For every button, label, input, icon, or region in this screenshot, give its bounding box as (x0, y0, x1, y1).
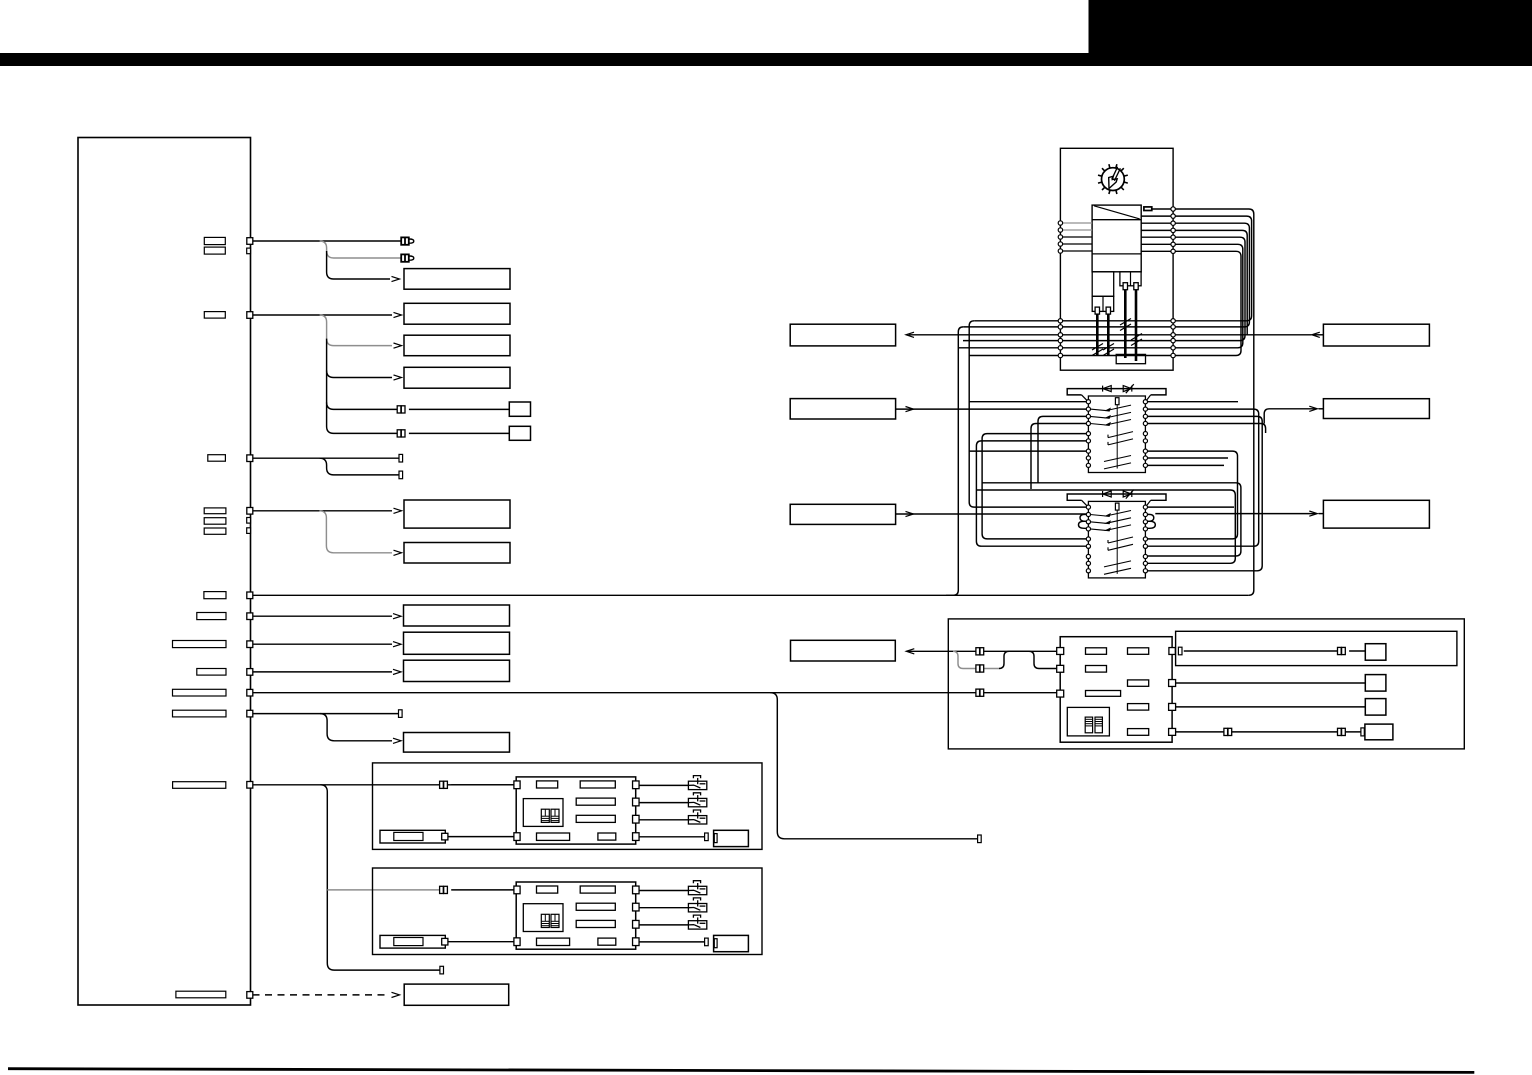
relay2 terminal L3 (1086, 520, 1090, 524)
assy1 PCB left connector bottom (514, 833, 520, 841)
relay2 bar left leg (1082, 500, 1088, 506)
arrowhead into box6 (394, 550, 402, 555)
wire row2 to box2 (253, 314, 393, 316)
assy2 right plug box (714, 935, 749, 951)
heavy lead junction box (1116, 354, 1145, 363)
assy2 wire to lamp 3 (639, 924, 688, 926)
assy1 bottom wire to connector (639, 836, 706, 838)
assy1 lamp/thermal switch 3 (688, 810, 706, 824)
terminal right tap 2 (1171, 214, 1175, 218)
assy1 left module connector (442, 833, 448, 840)
relay1 terminal R1 (1143, 400, 1147, 404)
crossover jog up to PCB connector 1 (999, 651, 1057, 668)
target box 1 (404, 269, 510, 290)
assy1 component r2 (580, 781, 615, 788)
relay2 row1 right stub (1148, 506, 1235, 508)
arrowhead into box E (1309, 406, 1317, 411)
terminal right tap 1 (1171, 207, 1175, 211)
relay block 1 body (1088, 396, 1145, 473)
label box A (left) (790, 324, 895, 346)
page header black bar (0, 53, 1532, 66)
RCA jack 2 (401, 254, 414, 261)
terminal bus row 5 left (1058, 346, 1062, 350)
wire relay1 row4 right stub (1148, 424, 1266, 434)
connector pair row2c (397, 406, 405, 413)
wire branch into display assy 2 (327, 889, 444, 891)
relay1 bar left leg (1082, 395, 1088, 401)
terminal left tap 2 (1058, 228, 1062, 232)
thermal fuse (1144, 207, 1152, 211)
right pedestal divider (1130, 272, 1132, 286)
wire row11 to display assy 1 (253, 784, 515, 786)
relay1 terminal L7 (1086, 449, 1090, 453)
connector label row4a (204, 508, 226, 514)
arrowhead from box B (906, 407, 914, 412)
box G4 tab (1361, 728, 1364, 736)
relay2 rows3-4 left jumper (1079, 521, 1087, 528)
crossover branch from D4 row (953, 651, 999, 668)
assy1 plug tab (714, 834, 717, 843)
relay block 1 diode 1 (1103, 386, 1112, 392)
inline connector pair f1 (1338, 647, 1346, 654)
relay1 terminal L8 (1086, 456, 1090, 460)
arrowhead into box2 (394, 312, 402, 317)
right tap bus: tap2 down to row r1 (974, 216, 1251, 321)
assy2 inline connector pair (440, 886, 448, 893)
assy2 digit block 1 (541, 914, 549, 927)
assy1 component r1 (537, 781, 558, 788)
wire branch row4 to box6 (319, 511, 392, 553)
small box G1 (1365, 644, 1386, 661)
relay2 terminal R1 (1143, 505, 1147, 509)
small box G2 (1365, 675, 1386, 692)
terminal right tap 4 (1171, 228, 1175, 232)
display assembly 2 : outer enclosure (373, 868, 763, 955)
stub connector right of assy1 (978, 835, 982, 843)
assy2 PCB right connector 2 (633, 903, 640, 911)
connector CN row1 (247, 238, 253, 245)
wire branch row2 to box4 (327, 339, 392, 378)
assy1 digit block 1 (541, 809, 549, 822)
relay2 terminal R8 (1143, 561, 1147, 565)
wire relay1 row1 right stub (1148, 401, 1239, 403)
assy2 PCB right connector 3 (633, 920, 640, 928)
bus row to relay2 row7 right (982, 483, 1241, 556)
right tap bus: tap1 down to AC row (1152, 209, 1254, 595)
wire feed to box E (1264, 409, 1316, 424)
terminal left tap 3 (1058, 235, 1062, 239)
transformer diagonal (1094, 206, 1140, 219)
assy1 component r4 (576, 815, 615, 822)
power PCB component r1 (1086, 648, 1107, 655)
wire relay1 row7 right to relay2 row5 right (1148, 451, 1238, 539)
assy2 left module connector (442, 938, 448, 945)
wire branch row3 to stub 2 (320, 458, 401, 475)
bottom page rule (8, 1069, 1474, 1073)
assy1 left module inner (394, 832, 423, 840)
connector CN row2 (247, 312, 253, 319)
relay1 row3 left wire down to loop A (1038, 416, 1086, 482)
assy2 end connector (705, 938, 709, 946)
power PCB right connector 4 (1169, 728, 1176, 735)
relay1 rows8-9 right stubs (1148, 457, 1229, 459)
inline connector pair p1 (976, 648, 984, 655)
header title block (solid black) (1089, 0, 1532, 55)
terminal bus row 1 left (1058, 319, 1062, 323)
relay block 1 switch blades (1090, 405, 1133, 469)
small box G4 (1365, 724, 1393, 740)
wire row1 to RCA jack 1 (253, 240, 402, 242)
connector label row6 (197, 613, 226, 620)
fan motor symbol (1098, 164, 1128, 194)
arrowhead into box F (1309, 511, 1317, 516)
assy1 PCB right connector 4 (633, 833, 640, 841)
relay2 terminal L7 (1086, 554, 1090, 558)
relay1 terminal L9 (1086, 463, 1090, 467)
assy1 inline connector pair (440, 781, 448, 788)
target box 11 (option) (404, 984, 509, 1005)
wire to small box A (409, 408, 509, 410)
assy1 PCB right connector 2 (633, 798, 640, 806)
connector label row11 (173, 782, 226, 789)
assy1 wire to lamp 2 (639, 802, 688, 804)
wire row4 to box5 (253, 510, 393, 512)
relay1 terminal R3 (1143, 414, 1147, 418)
power PCB digit block 2 (1095, 717, 1102, 733)
wire relay1 row6 left down to relay2 row6 left (976, 441, 1086, 546)
wire branch row1 to RCA jack 2 (320, 241, 402, 258)
relay2 common bar (1116, 510, 1118, 574)
connector label row2 (204, 312, 225, 319)
assy2 component r6 (598, 938, 616, 945)
label box E (right) (1323, 399, 1429, 419)
connector label row1a (204, 237, 225, 244)
assy1 left module (380, 830, 445, 843)
connector CN row10 (247, 710, 253, 717)
connector CN row5 (247, 592, 253, 599)
main PCB block (78, 138, 251, 1006)
heavy lead L2 (1107, 314, 1110, 355)
left pedestal plug 2 (1106, 307, 1110, 314)
connector label row12 (176, 991, 226, 998)
assy1 digit block 2 (551, 809, 559, 822)
relay2 terminal R7 (1143, 554, 1147, 558)
relay1 common bar (1116, 405, 1118, 469)
target box 5 (404, 500, 510, 528)
wire row4 to plug (1176, 731, 1361, 733)
terminal left tap 5 (1058, 249, 1062, 253)
arrowhead into box A (906, 332, 914, 337)
target box 10 (404, 733, 510, 753)
terminal bus row 6 left (1058, 353, 1062, 357)
inline connector pair p3 (976, 689, 984, 696)
left pedestal divider (1102, 296, 1104, 311)
power block PCB (1060, 637, 1172, 743)
assy2 component r5 (537, 938, 570, 945)
arrowhead into box11 (392, 992, 400, 997)
assy2 component r4 (576, 920, 615, 927)
assy1 PCB right connector 1 (633, 781, 640, 789)
terminal right tap 3 (1171, 221, 1175, 225)
label box D4 (left) (791, 640, 896, 661)
relay1 terminal R5 (1143, 432, 1147, 436)
label box F (right) (1323, 500, 1429, 528)
relay1 row4 left wire down to loop B (1031, 424, 1086, 490)
relay2 terminal L4 (1086, 527, 1090, 531)
right pedestal plug 1 (1123, 283, 1127, 290)
inline connector pair p2 (976, 665, 984, 672)
transformer left pedestal (1092, 272, 1114, 297)
relay1 terminal R8 (1143, 456, 1147, 460)
connector label row1b (204, 247, 225, 254)
connector label row4c (204, 528, 226, 534)
right tap bus: tap5 down to row r4 (963, 237, 1245, 340)
wire branch row2 to speaker B (327, 402, 401, 433)
assy2 lamp/thermal switch 3 (688, 915, 706, 929)
assy2 plug tab (714, 939, 717, 948)
transformer body (1092, 205, 1141, 272)
transformer secondary divider (1092, 253, 1141, 255)
arrowhead into box9 (393, 669, 401, 674)
wire relay1 row2 right to relay2 row6 right (1148, 409, 1259, 546)
row r3 : box A to box D (909, 334, 1312, 336)
assy1 component r5 (537, 833, 570, 840)
connector label row4b (204, 518, 226, 525)
power PCB left connector 2 (1057, 665, 1064, 672)
relay1 terminal L1 (1086, 400, 1090, 404)
relay2 terminal L6 (1086, 544, 1090, 548)
terminal bus row 2 right (1171, 325, 1175, 329)
power PCB component r5 (1086, 691, 1121, 697)
connector CN row6 (247, 613, 253, 620)
assy1 wire module to PCB (448, 836, 514, 838)
relay1 terminal R9 (1143, 463, 1147, 467)
relay2 terminal R2 (1143, 512, 1147, 516)
small box A (509, 402, 530, 416)
wire box B to relay1 row2 (896, 408, 1087, 410)
assy2 wire to PCB (451, 889, 514, 891)
connector CN row1 aux (247, 248, 251, 254)
label box C (left) (790, 504, 895, 524)
connector CN row4 aux1 (247, 518, 251, 524)
heavy lead L1 (1096, 314, 1099, 355)
relay2 terminal R6 (1143, 544, 1147, 548)
assy2 lamp/thermal switch 1 (688, 881, 706, 895)
assy1 PCB right connector 3 (633, 815, 640, 823)
terminal bus row 4 left (1058, 338, 1062, 342)
target box 4 (404, 367, 510, 388)
relay2 terminal L5 (1086, 537, 1090, 541)
assy1 lamp/thermal switch 2 (688, 793, 706, 807)
assy1 wire to PCB (451, 784, 514, 786)
relay2 terminal R3 (1143, 520, 1147, 524)
terminal bus row 2 left (1058, 325, 1062, 329)
assy2 component r1 (537, 886, 558, 893)
target box 2 (404, 303, 510, 324)
terminal right tap 7 (1171, 249, 1175, 253)
relay1 bar right leg (1146, 395, 1151, 401)
terminal left tap 4 (1058, 242, 1062, 246)
power PCB right connector 3 (1169, 703, 1176, 710)
stub connector row3b (399, 471, 403, 479)
connector label row10 (173, 710, 227, 717)
assy2 component r3 (576, 903, 615, 910)
power PCB component r6 (1128, 704, 1149, 711)
connector label row7 (173, 641, 227, 648)
left bus vertical to AC row (946, 327, 963, 595)
wire to small box B (409, 432, 509, 434)
transformer left tap 4 (1060, 243, 1092, 245)
assy2 left module inner (394, 938, 423, 946)
power PCB right connector 1 (1169, 648, 1175, 655)
terminal left tap 1 (1058, 221, 1062, 225)
relay2 terminal R4 (1143, 527, 1147, 531)
wire stub into box F (1319, 513, 1324, 515)
relay block 1 diode 2 (1123, 384, 1134, 393)
target box 7 (404, 605, 510, 626)
connector label row9 (173, 689, 227, 696)
connector CN row8 (247, 669, 253, 676)
wire branch row9 down to stub connector (770, 693, 979, 839)
inline connector pair p5 (1338, 728, 1346, 735)
assy2 PCB right connector 4 (633, 938, 640, 946)
wire relay1 row3 right to relay2 row9 right (1148, 416, 1263, 570)
relay block 1 top bar (1067, 389, 1166, 395)
right tap bus: tap4 down to row r3 (1141, 230, 1247, 334)
power PCB component r7 (1128, 729, 1149, 736)
transformer left tap 5 (1060, 250, 1092, 252)
wire stub into box E (1319, 408, 1324, 410)
assy2 PCB right connector 1 (633, 886, 640, 894)
arrowhead into box4 (394, 375, 402, 380)
disconnect slashes on right leads (1120, 319, 1142, 346)
power transformer enclosure (1060, 148, 1173, 370)
relay2 terminal L8 (1086, 561, 1090, 565)
target box 3 (404, 335, 510, 356)
connector CN row7 (247, 641, 253, 648)
wire relay1 row5 left down to relay2 row5 left (982, 434, 1086, 539)
arrowhead into box1 (392, 276, 400, 281)
bus row to relay2 row8 right (976, 490, 1235, 563)
connector label row3 (208, 455, 226, 462)
assy1 display window (523, 799, 563, 827)
relay1 terminal R6 (1143, 439, 1147, 443)
long wire row9 to power block (253, 692, 1057, 694)
relay1 terminal L3 (1086, 414, 1090, 418)
wire box C to relay2 row2 (896, 513, 1087, 515)
terminal bus row 3 left (1058, 333, 1062, 337)
wire row3 to stub 1 (253, 457, 401, 459)
assy1 component r6 (598, 833, 616, 840)
power PCB digit block 1 (1085, 717, 1092, 733)
arrowhead into box10 (393, 738, 401, 743)
terminal bus row 5 right (1171, 346, 1175, 350)
power PCB left connector 1 (1057, 648, 1064, 655)
right tap bus: tap3 down to row r2 (963, 223, 1249, 327)
right tap bus: tap6 down to row r5 (958, 244, 1243, 347)
assy2 display window (523, 904, 563, 932)
dashed wire row12 (253, 994, 391, 996)
terminal right tap 5 (1171, 235, 1175, 239)
left pedestal plug 1 (1095, 307, 1099, 314)
long AC wire row5 (253, 594, 1249, 596)
power PCB component r3 (1086, 666, 1107, 673)
wire bus to relay1 row1 (969, 401, 1086, 403)
heavy lead R1 (1124, 290, 1127, 358)
assy2 component r2 (580, 886, 615, 893)
heavy lead R2 (1135, 290, 1138, 361)
arrowhead from box D (1312, 332, 1320, 337)
relay2 terminal R5 (1143, 537, 1147, 541)
stub connector below assy2 (440, 966, 444, 974)
assy1 wire to lamp 3 (639, 819, 688, 821)
assy1 component r3 (576, 798, 615, 805)
relay block 2 diode 1 (1103, 491, 1112, 497)
wire branch row2 to speaker A (327, 371, 401, 410)
power PCB component r4 (1128, 680, 1149, 686)
disconnect slashes on left leads (1092, 344, 1114, 356)
wire relay1 row7 left (969, 450, 1086, 452)
relay block 2 diode 2 (1123, 490, 1134, 499)
connector CN row9 (247, 689, 253, 696)
relay2 rows2-3 right jumper (1148, 514, 1154, 521)
wire into box G1 (1349, 650, 1365, 652)
wire branch row2 to box3 (320, 315, 392, 346)
relay2 terminal L1 (1086, 505, 1090, 509)
relay1 terminal L5 (1086, 432, 1090, 436)
connector pair row2d (397, 430, 405, 437)
relay block 2 top bar (1067, 494, 1166, 500)
crossover jog down to PCB connector 2 (1029, 651, 1057, 668)
relay block 2 switch blades (1090, 511, 1133, 575)
relay2 terminal L9 (1086, 569, 1090, 573)
wire to fuse holder 1 (1184, 650, 1342, 652)
assy2 PCB left connector bottom (514, 938, 520, 946)
assy2 PCB left connector top (514, 886, 520, 894)
terminal bus row 6 right (1171, 353, 1175, 357)
display assembly 1 : outer enclosure (373, 763, 763, 850)
connector CN row4 aux2 (247, 528, 251, 534)
relay1 terminal L6 (1086, 439, 1090, 443)
relay2 internal fuse (1115, 503, 1119, 510)
power block enclosure (948, 619, 1464, 749)
relay2 terminal L2 (1086, 512, 1090, 516)
terminal bus row 1 right (1171, 319, 1175, 323)
wire row3 to box G3 (1176, 706, 1366, 708)
transformer left tap 2 (1060, 229, 1092, 231)
assy2 PCB box (516, 882, 636, 949)
left bus vertical to relay rows (969, 321, 1086, 507)
power PCB component r2 (1128, 648, 1149, 655)
RCA jack 1 (401, 237, 414, 244)
terminal right tap 6 (1171, 242, 1175, 246)
connector label row5 (204, 592, 226, 599)
assy1 end connector (705, 833, 709, 841)
relay1 internal fuse (1115, 398, 1119, 405)
wire feed to box F (1155, 513, 1316, 515)
assy2 left module (380, 935, 445, 948)
small box G3 (1365, 699, 1386, 716)
assy1 lamp/thermal switch 1 (688, 776, 706, 790)
label box D (right) (1323, 324, 1429, 346)
assy2 digit block 2 (551, 914, 559, 927)
transformer left tap 3 (1060, 236, 1092, 238)
connector CN row4 (247, 508, 253, 515)
assy1 PCB left connector top (514, 781, 520, 789)
assy1 PCB box (516, 777, 636, 844)
connector CN row3 (247, 455, 253, 462)
wire row7 to box8 (253, 643, 393, 645)
